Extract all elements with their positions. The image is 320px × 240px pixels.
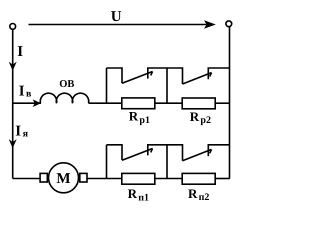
motor M — [40, 163, 87, 193]
svg-text:Rп1: Rп1 — [128, 186, 149, 203]
svg-text:Rр1: Rр1 — [129, 109, 150, 126]
wire left riser of armature ladder — [106, 145, 108, 179]
wire between Rp1 and Rp2 — [155, 102, 182, 104]
svg-text:I: I — [17, 44, 23, 60]
voltage arrow U — [29, 20, 216, 29]
current arrow I — [9, 62, 17, 71]
inductor OV (field winding) — [40, 93, 88, 103]
resistor Rn1 — [122, 173, 155, 184]
svg-text:ОВ: ОВ — [59, 79, 74, 90]
svg-text:М: М — [56, 171, 70, 187]
wire between Rn1 and Rn2 — [155, 178, 182, 180]
resistor Rp2 — [182, 98, 215, 109]
resistor Rn2 — [182, 173, 215, 184]
wire field branch left — [13, 102, 41, 104]
svg-text:Iв: Iв — [19, 83, 32, 99]
wire middle riser of field ladder — [166, 68, 168, 103]
wire bottom left corner to motor — [13, 178, 40, 180]
wire motor to armature ladder — [87, 178, 122, 180]
wire Rn2 to right bus — [215, 178, 230, 180]
terminal right — [226, 21, 232, 27]
wire middle riser of armature ladder — [166, 145, 168, 179]
wire left vertical bus — [12, 30, 14, 179]
current arrow Iya — [9, 139, 17, 148]
wire left riser of field ladder — [106, 68, 108, 103]
svg-text:Rп2: Rп2 — [188, 186, 209, 203]
wire coil to Rp1 — [89, 102, 122, 104]
svg-text:Rр2: Rр2 — [190, 109, 211, 126]
svg-text:Iя: Iя — [15, 123, 28, 139]
terminal left — [10, 24, 16, 30]
wire right vertical bus — [229, 27, 231, 179]
switch contact over Rp2 — [167, 68, 230, 84]
switch contact over Rn1 — [107, 145, 168, 161]
resistor Rp1 — [122, 98, 155, 109]
switch contact over Rp1 — [107, 68, 168, 83]
current arrow Iv — [33, 99, 41, 107]
switch contact over Rn2 — [167, 145, 230, 161]
svg-text:U: U — [111, 9, 122, 25]
wire Rp2 to right bus — [215, 102, 230, 104]
